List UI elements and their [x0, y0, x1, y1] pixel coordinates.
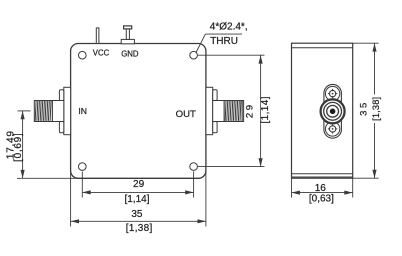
threaded barrel — [224, 101, 242, 122]
svg-text:THRU: THRU — [210, 36, 238, 47]
flange plate — [64, 87, 71, 134]
extension line bottom (body bottom extended) — [17, 177, 80, 179]
svg-text:35: 35 — [131, 209, 143, 220]
GND label — [121, 50, 139, 59]
svg-text:29: 29 — [245, 102, 256, 118]
svg-text:IN: IN — [78, 106, 87, 116]
dimension 35 [1,38] (bottom overall) — [71, 170, 206, 234]
hole bottom-left — [79, 163, 87, 171]
step bottom — [213, 122, 217, 133]
side view SMA connector face — [321, 84, 345, 138]
extension line top (connector centerline) — [18, 110, 31, 112]
GND feedthrough pin — [121, 26, 134, 44]
step bottom — [59, 122, 63, 133]
svg-text:OUT: OUT — [176, 109, 196, 120]
svg-text:[1,38]: [1,38] — [371, 97, 381, 121]
svg-text:35: 35 — [359, 100, 370, 116]
side view body — [292, 43, 353, 178]
hole bottom-right — [190, 163, 198, 171]
IN label — [78, 106, 87, 116]
center pin — [330, 109, 336, 115]
hole top-left — [79, 51, 87, 59]
dim line — [22, 111, 24, 178]
svg-text:4*Ø2.4*,: 4*Ø2.4*, — [210, 21, 248, 32]
svg-text:[0,69]: [0,69] — [13, 133, 24, 162]
VCC label — [93, 49, 110, 58]
dimension 29 [1,14] (bottom, between holes) — [82, 172, 193, 206]
OUT label — [176, 109, 196, 120]
SMA connector OUT (right, side profile) — [206, 87, 244, 134]
dimension 16 [0,63] (side bottom) — [292, 178, 353, 204]
hole top-right — [190, 51, 198, 59]
barrel end cap — [242, 101, 243, 122]
threaded barrel — [34, 101, 52, 122]
flange obround — [324, 84, 342, 138]
screw top — [328, 89, 337, 98]
svg-text:[1,14]: [1,14] — [260, 96, 271, 123]
front view body outline — [71, 44, 206, 179]
flange plate — [206, 87, 213, 134]
nut section — [213, 101, 225, 122]
svg-text:29: 29 — [133, 179, 145, 190]
svg-text:VCC: VCC — [93, 49, 110, 58]
screw bottom — [328, 124, 337, 133]
SMA connector IN (left, side profile) — [34, 87, 70, 134]
dimension 35 [1,38] (side vertical) — [353, 43, 381, 178]
svg-text:[1,14]: [1,14] — [124, 194, 149, 205]
VCC pin — [96, 28, 99, 44]
screw boss top — [325, 86, 339, 100]
step top — [213, 90, 217, 101]
svg-text:[0,63]: [0,63] — [309, 194, 334, 205]
dimension 29 [1,14] (right vertical, between holes) — [198, 55, 271, 166]
coax nut rings — [321, 99, 345, 123]
step top — [59, 90, 63, 101]
svg-text:GND: GND — [121, 50, 139, 59]
nut section — [52, 101, 64, 122]
svg-text:[1,38]: [1,38] — [126, 223, 153, 234]
screw boss bottom — [325, 122, 339, 136]
dimension 17,49 [0,69] (left vertical) — [5, 111, 79, 178]
leader 4*Ø2.4 THRU — [196, 21, 247, 52]
